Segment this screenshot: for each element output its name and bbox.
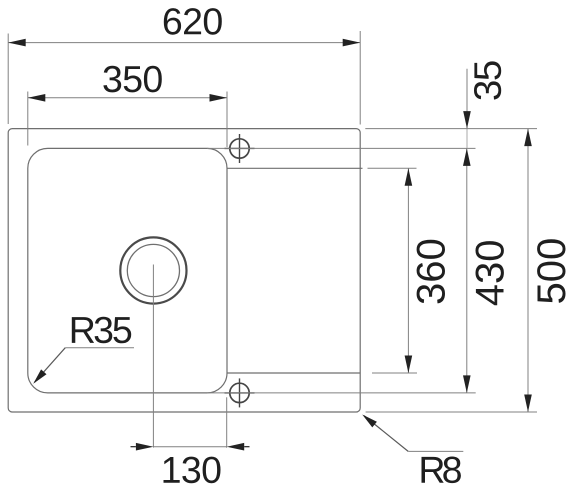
R8 leader horizontal: [408, 450, 463, 452]
620 left extension line: [7, 34, 9, 125]
620 right extension line: [359, 31, 361, 125]
R8 label: [422, 457, 461, 484]
130 label: [164, 457, 221, 484]
350 right arrowhead: [210, 94, 228, 102]
tap hole 2 crosshair horizontal: [225, 392, 255, 394]
35 label (rotated): [474, 61, 501, 99]
430 label (rotated): [476, 241, 504, 305]
350 left arrowhead: [28, 94, 46, 102]
360 bottom extension line: [372, 372, 417, 374]
360 up arrowhead: [405, 168, 413, 186]
350 dimension line: [28, 97, 227, 99]
dimension 130: [131, 397, 250, 483]
R8 leader diagonal: [364, 416, 408, 452]
620 label: [164, 8, 222, 35]
tap hole 1 circle: [230, 139, 249, 158]
drain centerline / 130 left extension: [152, 265, 154, 448]
360 down arrowhead: [405, 356, 413, 374]
500 bottom extension line: [366, 411, 537, 413]
500 up arrowhead: [524, 129, 532, 147]
500 dimension line: [527, 129, 529, 412]
350 right extension line: [226, 92, 228, 148]
dimension 430: [463, 148, 504, 393]
430 dimension line: [466, 148, 468, 393]
350 label: [103, 66, 161, 93]
35 connector between boundaries: [466, 129, 468, 149]
radius callout R35: [33, 317, 134, 384]
R35 label: [72, 317, 131, 344]
dimension 360: [368, 168, 446, 373]
dimension 620: [8, 8, 360, 124]
35 down arrowhead: [463, 111, 471, 129]
drainboard top ledge line: [227, 167, 363, 169]
130 right tail: [244, 446, 249, 448]
360 label (rotated): [417, 240, 445, 304]
130 right extension line: [226, 397, 228, 448]
35 upper tail line: [466, 69, 468, 129]
360 top extension line: [368, 167, 417, 169]
R35 leader diagonal: [35, 348, 66, 383]
360 dimension line: [407, 168, 409, 373]
drainboard bottom ledge line: [227, 372, 360, 374]
sink outer outline: [8, 129, 360, 412]
500 down arrowhead: [524, 395, 532, 413]
130 left tail: [131, 446, 136, 448]
430 up arrowhead: [463, 148, 471, 166]
radius callout R8: [362, 415, 463, 484]
500 label (rotated): [537, 239, 565, 303]
620 left arrowhead: [8, 39, 26, 47]
R35 arrowhead: [33, 369, 46, 383]
tap hole 2 circle: [230, 383, 249, 402]
dimension 500: [365, 129, 565, 412]
130 left arrowhead (outside): [136, 443, 154, 451]
R8 arrowhead: [362, 415, 377, 428]
bowl outline: [28, 148, 227, 393]
620 right arrowhead: [343, 39, 361, 47]
130 right arrowhead (outside): [227, 443, 245, 451]
tap hole 1 crosshair vertical: [239, 134, 241, 163]
620 dimension line: [8, 42, 360, 44]
130 dimension line: [153, 446, 226, 448]
tap hole 1 crosshair horizontal: [225, 147, 255, 149]
R35 leader horizontal: [65, 347, 134, 349]
extension line through tap hole 2 (430 bottom reference): [207, 392, 476, 394]
drain inner circle: [127, 244, 179, 296]
500 top extension line: [365, 128, 537, 130]
extension line through tap hole 1 (35/430 top reference): [207, 147, 476, 149]
dimension 350: [28, 66, 227, 147]
drain outer circle: [120, 237, 186, 303]
dimension 35: [463, 61, 501, 148]
430 down arrowhead: [463, 375, 471, 393]
350 left extension line: [27, 92, 29, 146]
tap hole 2 crosshair vertical: [239, 378, 241, 407]
